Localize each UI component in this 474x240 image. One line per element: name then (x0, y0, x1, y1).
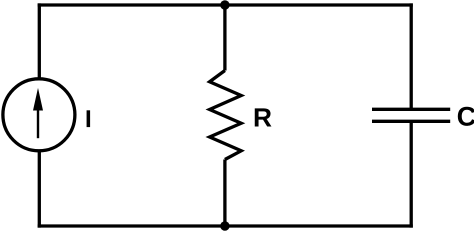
wire middle lower (223, 160, 226, 228)
wire middle upper (223, 3, 226, 70)
current source I1 (3, 79, 75, 151)
label R (255, 108, 272, 126)
label C (458, 107, 474, 126)
wire left lower (38, 151, 41, 228)
resistor R (210, 71, 242, 160)
wire top (38, 3, 413, 6)
wire right lower (410, 121, 413, 227)
junction dot bottom (220, 221, 229, 230)
wire left upper (38, 3, 41, 78)
wire bottom (38, 224, 413, 227)
wire right upper (410, 3, 413, 109)
label I (87, 110, 91, 127)
capacitor C (372, 109, 450, 121)
junction dot top (220, 0, 229, 9)
